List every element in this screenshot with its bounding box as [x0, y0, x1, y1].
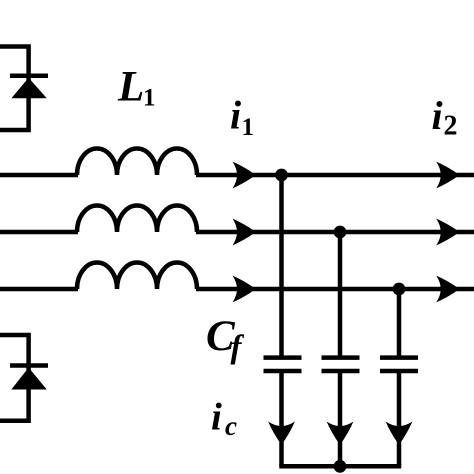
- svg-text:i: i: [211, 396, 222, 439]
- svg-text:i: i: [230, 93, 241, 138]
- svg-text:2: 2: [444, 111, 458, 142]
- svg-text:L: L: [117, 64, 144, 111]
- svg-text:1: 1: [242, 114, 255, 141]
- svg-text:c: c: [225, 411, 237, 441]
- svg-text:f: f: [231, 330, 245, 366]
- svg-text:i: i: [432, 93, 443, 138]
- svg-text:1: 1: [143, 85, 156, 112]
